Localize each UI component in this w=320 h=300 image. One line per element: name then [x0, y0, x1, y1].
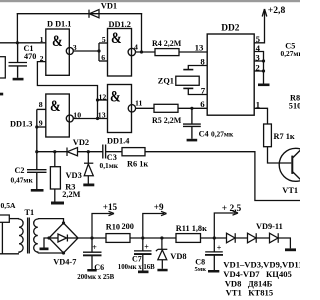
wire VD1 return vertical [141, 14, 143, 52]
svg-text:VD9-11: VD9-11 [256, 222, 283, 231]
svg-text:C4: C4 [199, 130, 209, 139]
svg-text:0,27мк: 0,27мк [211, 130, 234, 139]
wire DD1.1 pin2 feedback [37, 62, 97, 119]
svg-text:+: + [144, 242, 149, 251]
ground C2 [31, 189, 44, 192]
svg-text:11: 11 [135, 99, 142, 108]
wire pin4 out [136, 51, 155, 53]
svg-text:R7 1к: R7 1к [274, 132, 295, 141]
svg-text:&: & [111, 30, 122, 48]
svg-text:&: & [50, 98, 61, 116]
svg-text:VD4-7: VD4-7 [53, 258, 76, 267]
NAND gate DD1.1 [46, 29, 74, 75]
svg-text:VT1: VT1 [282, 186, 298, 195]
svg-text:+ 2,5: + 2,5 [222, 204, 242, 214]
gate DD1.2 [99, 29, 155, 77]
junction node R3 [53, 150, 56, 153]
capacitor C3 [103, 145, 106, 159]
ground C8 [208, 270, 219, 273]
power +9 [143, 211, 167, 238]
junction DD1.4 pin12 [96, 98, 99, 101]
wire secondary to bridge [38, 219, 64, 223]
wire DD1.1 pin3 to DD1.2 [73, 50, 99, 52]
wire DD2 pin1 to R7 [254, 108, 267, 124]
gate DD1.4 [98, 85, 155, 133]
svg-text:0,27мк: 0,27мк [281, 49, 301, 58]
wire inputs 8,9 bracket [37, 108, 46, 110]
svg-text:C2: C2 [15, 166, 25, 175]
junction node C4 [190, 107, 193, 110]
junction node C2 [35, 150, 38, 153]
wire main rail [78, 237, 106, 239]
wire C3 to R6 [106, 151, 122, 153]
diode VD2 [67, 148, 78, 157]
svg-text:5мк: 5мк [195, 266, 207, 273]
svg-text:13: 13 [98, 111, 106, 120]
wire R6 to VT1 emitter net [145, 152, 300, 201]
svg-text:T1: T1 [25, 208, 35, 217]
svg-text:9: 9 [39, 118, 43, 127]
svg-text:VD1: VD1 [101, 1, 117, 10]
svg-text:10: 10 [73, 110, 81, 119]
wire R5 to DD2 pin6 [178, 107, 207, 109]
capacitor C2 [27, 152, 47, 189]
resistor R5 [154, 104, 178, 112]
diode VD3 [84, 152, 93, 184]
svg-text:R10: R10 [106, 223, 120, 232]
wire pins 2,3 to ground [263, 61, 265, 84]
svg-text:+2,8: +2,8 [268, 5, 286, 16]
gate DD1.3 [37, 94, 108, 152]
capacitor C4 [183, 108, 201, 139]
diode VD9 [227, 233, 248, 243]
svg-text:&: & [110, 88, 121, 106]
resistor R7 [264, 124, 272, 147]
junction +2,5 rail [213, 236, 216, 239]
svg-text:C7: C7 [132, 255, 142, 264]
wire vertical left to VD1 [16, 14, 18, 43]
resistor R11 [176, 234, 201, 243]
svg-text:&: & [52, 33, 63, 51]
svg-text:R6 1к: R6 1к [127, 160, 148, 169]
svg-text:4: 4 [256, 43, 261, 53]
wire ZQ1 to pin7 [188, 88, 207, 94]
svg-text:DD1.4: DD1.4 [107, 136, 129, 145]
top scan border [0, 0, 300, 2]
svg-text:R4 2,2M: R4 2,2M [152, 39, 182, 48]
svg-text:8: 8 [39, 100, 43, 109]
svg-text:2: 2 [255, 62, 260, 72]
wire fuse to T1 [9, 218, 19, 220]
wire left return [0, 222, 19, 254]
connector box left edge [0, 57, 5, 78]
wire left of VD2 [37, 151, 67, 153]
wire ZQ1 to pin8 [188, 66, 207, 70]
diode VD10 [248, 233, 270, 243]
wire VD2 to C3 [78, 151, 103, 153]
wire top VD1 line [17, 13, 141, 15]
svg-text:DD1.3: DD1.3 [10, 119, 32, 128]
wire DD2 pin2 [254, 70, 263, 72]
svg-text:DD1.2: DD1.2 [109, 20, 131, 29]
svg-text:5: 5 [102, 35, 106, 44]
node wire row y=151.7 [37, 152, 300, 201]
transistor VT1 [279, 148, 312, 181]
svg-text:1: 1 [256, 100, 260, 110]
svg-text:VD8: VD8 [170, 252, 186, 261]
ground C7 [138, 271, 149, 274]
svg-text:200: 200 [122, 222, 134, 231]
svg-text:6: 6 [101, 53, 105, 62]
svg-text:+: + [217, 243, 222, 252]
svg-text:13: 13 [195, 43, 204, 53]
svg-text:VD1–VD3,VD9,VD11 К: VD1–VD3,VD9,VD11 К [223, 260, 300, 270]
svg-text:ZQ1: ZQ1 [158, 77, 174, 86]
capacitor C8 [205, 238, 223, 270]
resistor R3 [50, 167, 60, 189]
junction DD1.3 inputs [35, 125, 38, 128]
core [27, 218, 29, 254]
resistor R10 [106, 234, 130, 243]
diode VD1 [89, 10, 99, 18]
svg-text:2,2М: 2,2М [62, 190, 80, 199]
svg-text:8: 8 [200, 56, 205, 66]
svg-text:+: + [92, 243, 97, 252]
wire bridge ground [44, 238, 49, 248]
resistor R4 [155, 49, 179, 56]
svg-text:C6: C6 [94, 263, 104, 272]
svg-text:7: 7 [201, 85, 206, 95]
resistor R6 [122, 148, 145, 156]
svg-text:R5 2,2M: R5 2,2M [152, 116, 182, 125]
junction bridge top [62, 221, 65, 224]
ground C4 [187, 139, 198, 142]
junction +9 rail [141, 236, 144, 239]
svg-text:3: 3 [255, 52, 260, 62]
svg-text:VD2: VD2 [73, 138, 89, 147]
power +2,5 [214, 211, 238, 238]
junction DD1.4 pin13 [96, 117, 99, 120]
junction DD1.2 input bracket [97, 49, 100, 52]
svg-text:+9: +9 [154, 202, 164, 212]
black mark left edge [0, 93, 3, 96]
svg-text:4: 4 [134, 43, 138, 52]
svg-text:0,1мк: 0,1мк [100, 161, 119, 170]
junction pin2 [262, 69, 265, 72]
ground R3 [51, 202, 64, 205]
secondary winding [34, 219, 38, 253]
wire pin11 out [136, 107, 154, 109]
ground DD2 pins [258, 84, 270, 87]
ground bridge [40, 248, 49, 251]
wire inputs 5,6 bracket [98, 43, 100, 61]
junction bridge left [47, 236, 50, 239]
junction node VD3 [87, 150, 90, 153]
junction VD8 rail [160, 236, 163, 239]
capacitor C7 [134, 238, 152, 271]
svg-text:VT1 КТ815: VT1 КТ815 [226, 288, 274, 298]
IC DD2 [207, 34, 254, 115]
wire DD2 pin5 to +2,8 [254, 9, 267, 43]
ground C1 [13, 78, 24, 81]
bridge VD4-7 [44, 223, 78, 253]
diode VD11 [270, 233, 291, 248]
svg-text:510: 510 [289, 101, 300, 110]
wire pin10 to DD1.4 pin13 [73, 118, 107, 120]
wire DD2 pin3 [254, 60, 263, 62]
primary winding [19, 219, 23, 253]
capacitor C1 [9, 43, 28, 78]
svg-text:470: 470 [24, 52, 36, 61]
ground VD3 [83, 184, 94, 187]
svg-text:DD2: DD2 [221, 24, 240, 34]
svg-text:C8: C8 [195, 257, 205, 266]
junction bridge bottom [62, 251, 65, 254]
wire input net pin1 [0, 42, 46, 44]
zener VD8 [156, 238, 167, 269]
junction input node [16, 41, 19, 44]
wire R4 to DD2 pin13 [179, 51, 207, 53]
svg-text:6: 6 [200, 99, 205, 109]
wire input 12 [98, 99, 108, 101]
svg-text:100мк х 16В: 100мк х 16В [118, 264, 155, 271]
wire DD2 pin4 [254, 52, 263, 62]
ground VD8 [157, 269, 167, 272]
wire R7 to VT1 base [268, 147, 292, 163]
junction pin4 / VD1 [140, 50, 143, 53]
svg-text:1: 1 [40, 35, 44, 44]
crystal ZQ1 [176, 66, 207, 95]
ground VD9-11 [285, 248, 296, 251]
svg-text:D D1.1: D D1.1 [47, 20, 71, 29]
svg-text:200мк х 25В: 200мк х 25В [77, 274, 114, 281]
junction pin3 [262, 59, 265, 62]
junction +15 rail [90, 236, 93, 239]
power +15 [92, 211, 114, 238]
svg-text:0,5A: 0,5A [1, 201, 16, 210]
capacitor C6 [83, 238, 102, 269]
svg-text:R11 1,8к: R11 1,8к [176, 224, 207, 233]
svg-text:0,47мк: 0,47мк [11, 176, 34, 185]
svg-text:12: 12 [99, 92, 107, 101]
svg-text:VD3: VD3 [66, 171, 82, 180]
svg-text:+15: +15 [103, 202, 118, 212]
ground C6 [87, 269, 96, 272]
